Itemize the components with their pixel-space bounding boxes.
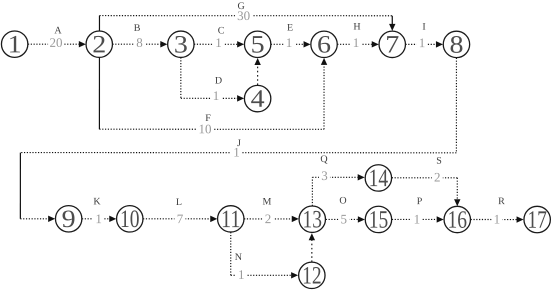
svg-text:20: 20 (50, 35, 63, 50)
svg-text:1: 1 (419, 35, 426, 50)
node 8 (443, 31, 469, 58)
wire L 10-11 (143, 216, 217, 222)
wire J 8-9 route (20, 58, 456, 223)
label C (213, 25, 225, 50)
svg-text:12: 12 (302, 263, 322, 290)
svg-text:8: 8 (136, 35, 143, 50)
label G (235, 1, 252, 23)
wire E 5-6 (271, 41, 311, 47)
label D (211, 75, 223, 103)
node 9 (55, 206, 81, 233)
svg-text:16: 16 (448, 207, 468, 234)
svg-text:15: 15 (369, 207, 389, 234)
svg-text:13: 13 (303, 206, 323, 233)
node 4 (244, 85, 270, 112)
wire R 16-17 (471, 216, 524, 222)
wire M 11-13 (244, 216, 299, 222)
svg-text:2: 2 (434, 169, 441, 184)
svg-text:4: 4 (251, 86, 266, 113)
svg-text:E: E (287, 23, 293, 34)
node 5 (244, 31, 270, 58)
node 15 (365, 206, 391, 233)
wire N 11-12 (231, 232, 298, 278)
svg-text:S: S (436, 156, 442, 167)
node 2 (86, 31, 112, 58)
svg-text:I: I (422, 22, 425, 33)
svg-text:1: 1 (353, 35, 360, 50)
label A (48, 25, 64, 50)
svg-text:Q: Q (320, 154, 328, 165)
wire S 14-16 (392, 178, 461, 206)
node 12 (299, 262, 325, 289)
svg-text:B: B (134, 23, 141, 34)
wire I 7-8 (405, 41, 443, 47)
svg-text:5: 5 (251, 31, 265, 58)
node 1 (1, 31, 27, 58)
wire B 2-3 (112, 41, 167, 47)
wire G 2-7 top route (99, 16, 395, 31)
svg-text:1: 1 (95, 211, 102, 226)
node 6 (311, 31, 337, 58)
svg-text:1: 1 (215, 35, 222, 50)
svg-text:9: 9 (62, 206, 76, 233)
svg-text:3: 3 (174, 31, 188, 58)
svg-text:H: H (353, 22, 360, 33)
wire dummy 4-5 (254, 58, 260, 85)
svg-text:O: O (339, 196, 346, 207)
wire Q 13-14 (312, 174, 364, 206)
label N (235, 252, 247, 282)
svg-text:7: 7 (177, 211, 184, 226)
wire O 13-15 (326, 216, 365, 222)
svg-text:K: K (93, 196, 101, 207)
svg-text:1: 1 (238, 267, 245, 282)
svg-text:30: 30 (237, 8, 250, 23)
svg-text:14: 14 (369, 165, 389, 192)
label S (432, 156, 443, 185)
label H (351, 22, 362, 51)
svg-text:10: 10 (120, 206, 140, 233)
node 16 (444, 206, 470, 233)
svg-text:N: N (235, 252, 242, 263)
wire P 15-16 (392, 216, 444, 222)
svg-text:R: R (498, 196, 505, 207)
label M (262, 196, 273, 226)
wire A 1-2 (28, 41, 86, 47)
svg-text:2: 2 (92, 31, 106, 58)
node 7 (379, 31, 405, 58)
svg-text:8: 8 (449, 32, 463, 59)
svg-text:P: P (417, 196, 423, 207)
svg-text:17: 17 (527, 207, 547, 234)
wire K 9-10 (82, 216, 116, 222)
svg-text:D: D (215, 75, 222, 86)
svg-text:1: 1 (233, 144, 240, 159)
svg-text:1: 1 (286, 35, 293, 50)
label O (338, 196, 349, 227)
label K (93, 196, 104, 226)
label E (284, 23, 295, 51)
label P (411, 196, 422, 226)
node 13 (299, 206, 325, 233)
wire F 2-6 bottom route (99, 57, 327, 129)
node 3 (168, 31, 194, 58)
wire H 6-7 (337, 41, 379, 47)
svg-text:6: 6 (317, 32, 331, 59)
label I (417, 22, 428, 51)
svg-text:1: 1 (213, 88, 220, 103)
node 14 (365, 165, 391, 192)
wire C 3-5 (194, 41, 244, 47)
label F (197, 113, 214, 136)
label J (231, 138, 242, 160)
label Q (319, 154, 330, 183)
svg-text:3: 3 (321, 168, 328, 183)
wire dummy 12-13 (309, 233, 315, 262)
svg-text:1: 1 (414, 211, 421, 226)
node 17 (524, 206, 550, 233)
svg-text:M: M (263, 196, 272, 207)
svg-text:11: 11 (221, 206, 241, 233)
node 11 (218, 206, 244, 233)
svg-text:7: 7 (385, 32, 399, 59)
label B (134, 23, 145, 50)
svg-text:5: 5 (341, 211, 348, 226)
svg-text:L: L (176, 197, 182, 208)
svg-text:1: 1 (494, 212, 501, 227)
svg-text:10: 10 (199, 121, 212, 136)
svg-text:1: 1 (8, 31, 22, 58)
svg-text:2: 2 (265, 211, 272, 226)
wire D 3-4 (181, 57, 244, 101)
label L (174, 197, 185, 226)
node 10 (117, 206, 143, 233)
label R (491, 196, 505, 226)
